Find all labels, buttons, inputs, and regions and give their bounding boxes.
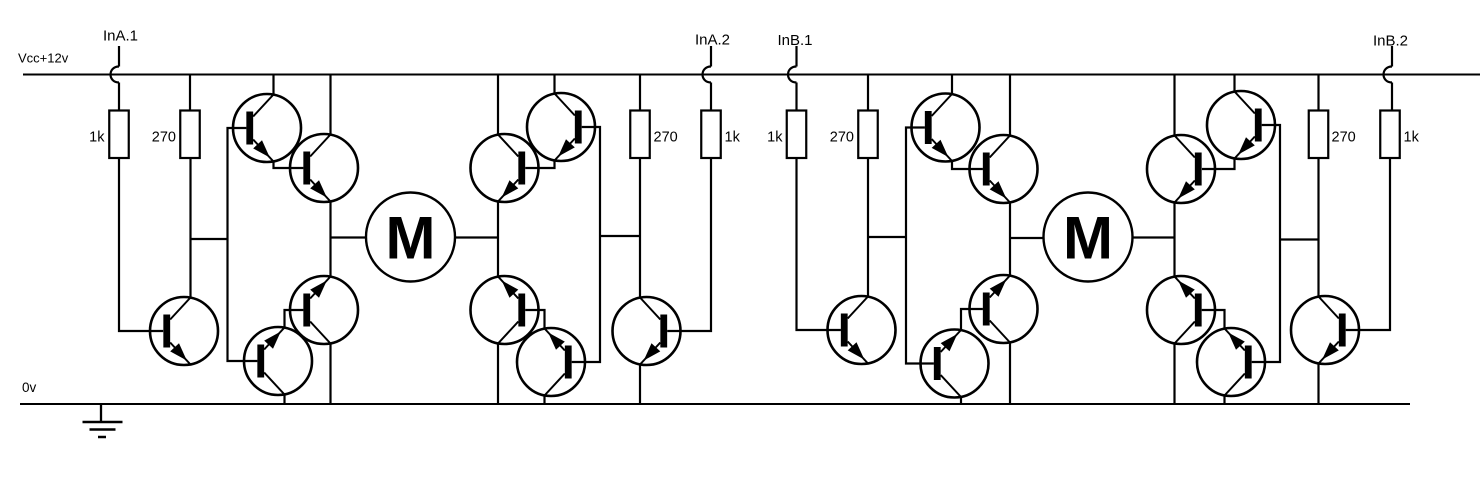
wire Q16 emitter to Q15 base	[1202, 159, 1235, 170]
resistor R1 1k (InA.1) (1k)	[89, 111, 129, 159]
wire Q16 collector to Vcc	[1233, 75, 1235, 92]
resistor R3 270 (right A) (270)	[630, 111, 677, 159]
wire motor B right lead	[1133, 236, 1175, 238]
wire Q1 collector to Vcc	[272, 75, 274, 95]
transistor Q2 (top-left inner)	[290, 134, 358, 202]
transistor Q17 (bottom-right inner)	[1147, 276, 1215, 344]
wire R6 top to Vcc	[867, 75, 869, 111]
wire Q3 base to Q4 emitter	[285, 310, 304, 328]
transistor Q15 (top-right inner)	[1147, 135, 1215, 203]
wire Q9 emitter to 0v	[639, 365, 641, 405]
transistor Q5 (top-right inner)	[471, 134, 539, 202]
wire Q6 emitter to Q5 base	[525, 161, 554, 169]
transistor Q9 (driver, InA.2)	[613, 297, 681, 365]
wire Q11 collector to Vcc	[951, 75, 953, 95]
wire base bus right-A (Q6/Q8 bases)	[572, 127, 600, 362]
svg-text:270: 270	[830, 130, 854, 146]
motor M (bridge A)	[366, 193, 455, 282]
wire Q9 base to R4	[667, 158, 711, 331]
wire Q13 collector to 0v	[1009, 343, 1011, 405]
svg-text:M: M	[386, 205, 436, 272]
transistor Q4 (bottom-left outer)	[244, 327, 312, 395]
wire Q14 collector to 0v	[960, 397, 962, 404]
svg-text:Vcc+12v: Vcc+12v	[18, 51, 69, 66]
transistor Q8 (bottom-right outer)	[517, 328, 585, 396]
svg-text:270: 270	[152, 130, 176, 146]
svg-text:270: 270	[654, 130, 678, 146]
resistor R7 270 (right B) (270)	[1309, 111, 1356, 159]
wire Q19 emitter to 0v	[1317, 364, 1319, 405]
wire motor A left lead	[331, 236, 367, 238]
wire junction left-B to base bus	[868, 236, 906, 238]
transistor Q16 (top-right outer)	[1207, 91, 1275, 159]
wire R6 bottom to Q20 collector trunk	[867, 158, 869, 297]
wire left trunk A (Q2 emitter to Q3 emitter)	[329, 202, 331, 277]
wire motor B left lead	[1010, 237, 1044, 239]
transistor Q18 (bottom-right outer)	[1197, 328, 1265, 396]
resistor R2 270 (left A) (270)	[152, 111, 200, 159]
wire R3 top to Vcc	[639, 75, 641, 111]
wire junction right-A to base bus	[600, 235, 640, 237]
wire right trunk B (Q15 emitter to Q17 emitter)	[1173, 203, 1175, 277]
svg-text:InA.1: InA.1	[103, 28, 138, 45]
wire Q7 collector to 0v	[497, 344, 499, 405]
ground symbol	[83, 404, 123, 437]
wire R7 top to Vcc	[1317, 75, 1319, 111]
wire Vcc +12V top rail	[23, 74, 1480, 76]
wire Q2 collector to Vcc	[329, 75, 331, 135]
transistor Q3 (bottom-left inner)	[290, 276, 358, 344]
wire 0V bottom rail	[20, 403, 1410, 405]
wire base bus right-B (Q16/Q18 bases)	[1252, 125, 1280, 362]
wire Q6 collector to Vcc	[553, 75, 555, 94]
motor M (bridge B)	[1044, 193, 1133, 282]
transistor Q1 (top-left outer)	[233, 94, 301, 162]
svg-text:270: 270	[1332, 130, 1356, 146]
wire Q17 base to Q18 emitter	[1202, 310, 1225, 329]
wire InA.1 input with hop over Vcc rail	[111, 46, 119, 111]
svg-text:1k: 1k	[89, 130, 105, 146]
wire Q5 collector to Vcc	[497, 75, 499, 135]
wire right trunk A (Q5 emitter to Q7 emitter)	[497, 202, 499, 277]
wire Q1 emitter to Q2 base	[274, 162, 304, 169]
wire left trunk B (Q12 emitter to Q13 emitter)	[1009, 203, 1011, 276]
svg-text:0v: 0v	[22, 380, 37, 395]
wire junction left-A to base bus	[191, 238, 228, 240]
wire Q12 collector to Vcc	[1009, 75, 1011, 136]
resistor R8 1k (InB.2) (1k)	[1380, 111, 1419, 159]
wire InB.1 input with hop over Vcc rail	[788, 46, 796, 111]
wire Q8 collector to 0v	[543, 396, 545, 405]
resistor R6 270 (left B) (270)	[830, 111, 878, 159]
svg-text:InB.1: InB.1	[778, 32, 813, 49]
transistor Q19 (driver, InB.2)	[1291, 296, 1359, 364]
wire Q18 collector to 0v	[1223, 396, 1225, 405]
transistor Q14 (bottom-left outer)	[921, 330, 989, 398]
svg-text:1k: 1k	[725, 130, 741, 146]
wire Q11 emitter to Q12 base	[952, 161, 983, 169]
svg-text:InB.2: InB.2	[1373, 33, 1408, 50]
wire Q3 collector to 0v	[329, 344, 331, 405]
wire R5 bottom to Q20 base	[797, 158, 841, 330]
transistor Q10 (driver, InA.1)	[150, 297, 218, 365]
svg-text:M: M	[1063, 205, 1113, 272]
svg-text:1k: 1k	[1404, 130, 1420, 146]
wire InA.2 input with hop over Vcc rail	[703, 46, 711, 111]
wire R3 bottom to Q9 collector	[639, 158, 641, 298]
wire Q15 collector to Vcc	[1173, 75, 1175, 136]
resistor R4 1k (InA.2) (1k)	[701, 111, 740, 159]
wire Q17 collector to 0v	[1173, 344, 1175, 405]
wire base bus left-B (Q11/Q14 bases)	[906, 128, 934, 364]
resistor R5 1k (InB.1) (1k)	[767, 111, 806, 159]
svg-text:InA.2: InA.2	[695, 32, 730, 49]
wire Q13 base to Q14 emitter	[961, 309, 983, 330]
wire InB.2 input with hop over Vcc rail	[1384, 46, 1392, 111]
transistor Q7 (bottom-right inner)	[471, 276, 539, 344]
wire Q7 base to Q8 emitter	[525, 310, 544, 329]
wire R1 bottom to Q10 base	[119, 158, 163, 331]
transistor Q11 (top-left outer)	[912, 94, 980, 162]
svg-text:1k: 1k	[767, 130, 783, 146]
transistor Q20 (driver, InB.1)	[828, 296, 896, 364]
wire R2 top to Vcc	[189, 75, 191, 111]
transistor Q6 (top-right outer)	[527, 93, 595, 161]
wire Q4 collector to 0v	[283, 395, 285, 405]
transistor Q13 (bottom-left inner)	[970, 275, 1038, 343]
wire Q19 base to R8	[1346, 158, 1390, 330]
transistor Q12 (top-left inner)	[970, 135, 1038, 203]
wire R2 bottom to Q10 collector trunk	[189, 158, 191, 298]
wire junction right-B to base bus	[1280, 238, 1319, 240]
wire R7 bottom to Q19 collector	[1317, 158, 1319, 297]
wire base bus left-A (Q1/Q4 bases)	[228, 128, 258, 361]
wire motor A right lead	[455, 236, 498, 238]
